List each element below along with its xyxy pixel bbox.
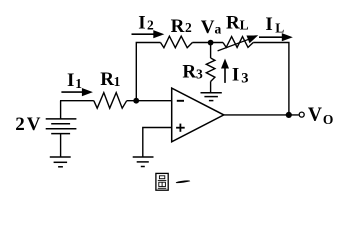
current arrow I2 [132,33,155,35]
svg-text:2: 2 [147,18,154,33]
resistor R1 [94,93,127,109]
svg-text:L: L [275,21,284,36]
ground (op-amp + input) [133,157,154,167]
svg-text:3: 3 [241,71,248,87]
wire: RL to right corner, down to output [253,43,289,115]
svg-text:I: I [67,70,74,91]
op-amp minus sign [177,100,184,102]
wire: Va node down to R3 [210,43,212,58]
ground (below battery) [50,157,71,167]
resistor R2 [161,36,193,48]
svg-text:I: I [265,14,272,35]
svg-text:R: R [226,12,240,33]
svg-text:R: R [100,69,114,90]
terminal Vo open circle [299,112,304,117]
svg-text:1: 1 [75,76,82,91]
svg-text:V: V [27,114,41,135]
svg-text:2: 2 [15,114,24,135]
svg-text:V: V [201,17,215,38]
svg-text:R: R [182,62,196,83]
svg-text:a: a [215,21,222,36]
svg-text:L: L [240,18,249,33]
wire: battery to R1 [60,100,94,102]
battery V1 (2 V source) [60,101,62,119]
svg-text:O: O [323,112,334,127]
svg-text:2: 2 [185,20,192,35]
svg-text:3: 3 [196,66,203,81]
svg-text:1: 1 [114,74,121,89]
svg-text:R: R [171,16,185,37]
current arrow I3 [224,68,226,83]
caption 一 (one) stroke drawn manually [176,180,191,183]
wire: R3 to ground [210,82,212,93]
ground (below R3) [201,93,222,101]
wire: R1 to op-amp inverting input [127,100,172,102]
svg-text:V: V [308,105,322,126]
wire: non-inverting input to ground [143,128,172,157]
node Va dot [208,40,214,46]
wire: op-amp output to Vo terminal [224,114,299,116]
svg-text:I: I [232,64,239,85]
current arrow I1 [61,91,83,93]
op-amp plus sign [176,127,185,129]
caption 圖 (figure) glyph drawn manually [156,173,168,190]
resistor R3 [206,58,215,82]
resistor RL (variable) [223,37,253,48]
op-amp U1 [172,88,224,142]
wire: top branch left corner + vertical down to inverting node [136,43,160,101]
current arrow IL [259,36,282,38]
RL wiper diagonal arrow [218,39,250,51]
node (output junction) dot [286,112,292,118]
wire: R2 to RL through node Va [192,42,223,44]
node (inverting input junction) dot [133,98,139,104]
svg-text:I: I [138,13,145,34]
